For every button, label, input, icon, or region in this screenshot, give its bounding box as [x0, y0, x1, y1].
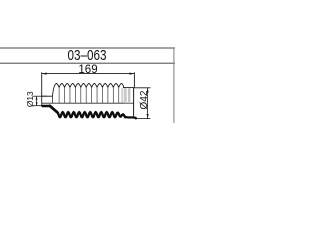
gray band in last convolution [121, 88, 123, 103]
dia13 dim line [36, 96, 38, 106]
bellows scalloped top [53, 83, 124, 96]
arrow dia42 top [147, 88, 149, 92]
arrow dia13 bottom [36, 102, 38, 105]
dia42 dim line [147, 88, 149, 119]
svg-text:03–063: 03–063 [68, 47, 107, 64]
cylinder clamp band 1 [124, 88, 127, 103]
svg-text:Ø42: Ø42 [139, 90, 150, 109]
extension line 169 left / boot left face [41, 72, 43, 106]
neck clamp tick [51, 96, 53, 103]
right cylinder top [123, 87, 134, 89]
table rule top [0, 47, 175, 49]
dia42 extension top [134, 87, 151, 89]
boot lower silhouette: neck bottom [42, 105, 51, 108]
boot lower silhouette: right end [126, 117, 136, 118]
boot lower silhouette: slope [50, 106, 57, 112]
dia42 extension bottom [136, 118, 150, 120]
extension line 169 right [133, 72, 135, 88]
dim line 169 [42, 73, 135, 75]
arrow dia42 bottom [147, 114, 149, 118]
dia13 extension bottom [33, 105, 42, 107]
table rule bottom [0, 62, 175, 64]
cylinder clamp band 2 [128, 88, 130, 103]
arrow dia13 top [36, 96, 38, 99]
bellows fold lines [58, 87, 60, 103]
dia13 extension top [33, 95, 47, 97]
cylinder end face [133, 88, 135, 119]
boot lower silhouette: bellows wave [57, 112, 125, 117]
arrow 169 left [42, 72, 47, 74]
svg-text:Ø13: Ø13 [25, 91, 35, 107]
bore line [42, 102, 134, 104]
arrow 169 right [129, 72, 134, 74]
neck top line [42, 95, 53, 97]
table border right [173, 48, 175, 123]
